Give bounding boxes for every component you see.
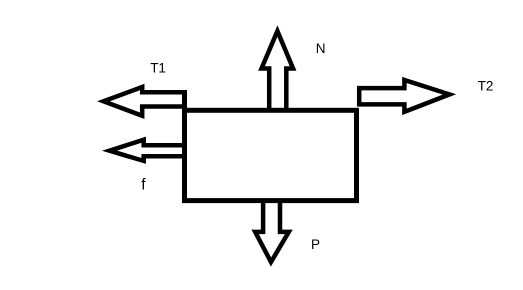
force arrow N (up, block arrow outline) — [262, 31, 294, 112]
force arrow P (down, block arrow outline) — [255, 199, 289, 262]
force arrow T2 (right, block arrow outline) — [359, 80, 449, 112]
block (rectangle body) — [185, 110, 357, 200]
wire: left edge extension up to T1 tail — [182, 90, 187, 112]
svg-text:f: f — [141, 177, 146, 194]
svg-text:T2: T2 — [478, 78, 494, 93]
force arrow f (left, block arrow outline) — [110, 140, 188, 161]
force arrow T1 (left, block arrow outline) — [104, 87, 188, 116]
svg-text:T1: T1 — [150, 60, 166, 75]
svg-text:P: P — [311, 237, 320, 252]
svg-text:N: N — [316, 41, 326, 56]
